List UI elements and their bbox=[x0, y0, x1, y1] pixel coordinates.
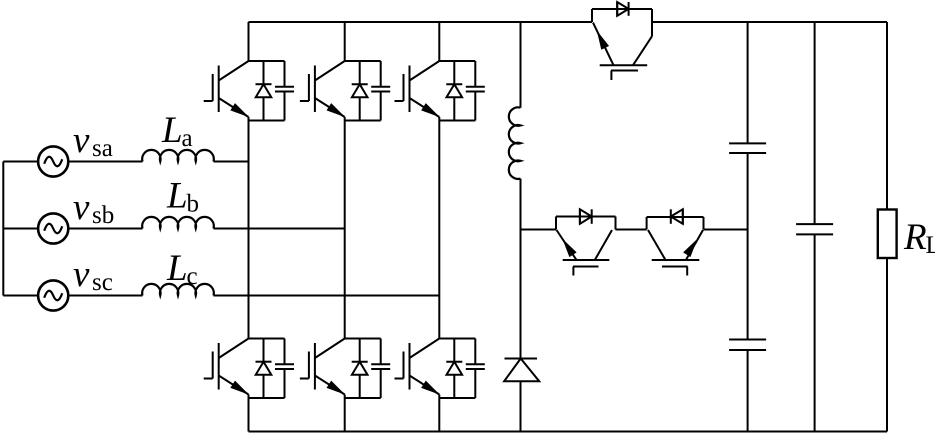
svg-text:v: v bbox=[73, 120, 90, 161]
svg-text:v: v bbox=[73, 254, 90, 295]
svg-text:L: L bbox=[166, 248, 188, 289]
svg-text:sb: sb bbox=[92, 202, 114, 229]
svg-text:c: c bbox=[187, 263, 198, 290]
svg-text:sa: sa bbox=[92, 135, 113, 162]
svg-text:L: L bbox=[161, 110, 183, 151]
svg-text:L: L bbox=[926, 232, 935, 259]
svg-text:b: b bbox=[187, 191, 200, 218]
svg-text:v: v bbox=[73, 187, 90, 228]
svg-text:R: R bbox=[903, 217, 927, 258]
svg-text:sc: sc bbox=[92, 269, 113, 296]
svg-text:L: L bbox=[166, 176, 188, 217]
svg-text:a: a bbox=[182, 125, 193, 152]
